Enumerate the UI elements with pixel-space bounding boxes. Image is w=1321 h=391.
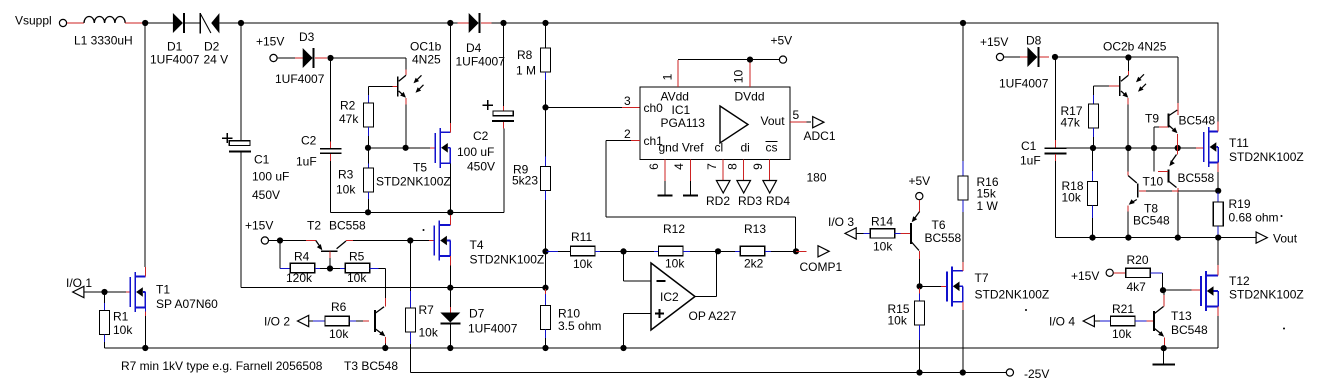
- svg-text:+15V: +15V: [980, 35, 1008, 49]
- svg-text:RD2: RD2: [706, 194, 730, 208]
- svg-text:6: 6: [647, 163, 661, 170]
- wire ground rail: [105, 347, 1219, 349]
- terminal +5V (IC1): [779, 56, 786, 63]
- wire rail to right corner: [963, 22, 1219, 24]
- svg-text:R11: R11: [571, 230, 592, 244]
- wire sense line down to Vout row: [1177, 192, 1179, 237]
- svg-text:+5V: +5V: [909, 174, 931, 188]
- svg-text:R14: R14: [871, 215, 893, 229]
- svg-text:100 uF: 100 uF: [252, 170, 289, 184]
- svg-text:9: 9: [751, 163, 765, 170]
- transistor T11 STD2NK100Z mosfet: [1203, 132, 1205, 162]
- svg-text:R21: R21: [1112, 302, 1134, 316]
- node R2/R3 junction: [365, 145, 371, 151]
- wire red C1 top lead: [240, 137, 242, 141]
- svg-text:AVdd: AVdd: [661, 90, 689, 104]
- node T3 emitter rail junction: [382, 345, 388, 351]
- svg-text:24 V: 24 V: [204, 53, 229, 67]
- wire T10 collector to R19 node: [1178, 190, 1218, 192]
- svg-text:120k: 120k: [286, 271, 313, 285]
- wire +15V to D3: [277, 57, 295, 59]
- wire T12 drain: [1217, 238, 1219, 265]
- resistor R16 15k 1W: [962, 23, 964, 161]
- svg-text:ADC1: ADC1: [804, 129, 836, 143]
- wire row red to T11 gate: [1178, 147, 1196, 149]
- wire T12 source: [1217, 307, 1219, 317]
- wire T9 base: [1159, 126, 1168, 128]
- resistor R5 10k: [330, 268, 340, 270]
- node R19 bottom on Vout row: [1215, 235, 1221, 241]
- wire input node down to T1 drain: [144, 23, 146, 267]
- terminal Vsuppl: [59, 19, 66, 26]
- wire red OC2b emitter stub: [1127, 98, 1129, 104]
- wire T11 source: [1217, 163, 1219, 172]
- node T4 gate / R7 junction: [407, 237, 413, 243]
- svg-text:0.68 ohm: 0.68 ohm: [1229, 211, 1279, 225]
- wire L1 to node: [125, 22, 145, 24]
- node T13 emitter ground junction: [1161, 345, 1167, 351]
- wire red D3 out: [315, 57, 327, 59]
- terminal +15V (D8): [996, 53, 1003, 60]
- svg-text:1: 1: [661, 73, 675, 80]
- wire T2 collector to T4 gate: [346, 240, 353, 242]
- svg-text:R7: R7: [419, 303, 435, 317]
- terminal +15V (T2): [261, 237, 268, 244]
- node D8 junction: [1052, 54, 1058, 60]
- wire T2 base down: [329, 252, 331, 259]
- terminal +15V (D3): [270, 54, 277, 61]
- node OC2b emitter row junction: [1125, 145, 1131, 151]
- wire D8 node to OC2b: [1055, 56, 1128, 58]
- svg-text:RD3: RD3: [738, 194, 762, 208]
- node COMP1 junction: [793, 248, 799, 254]
- transistor T12 STD2NK100Z mosfet: [1200, 276, 1202, 306]
- resistor R17 47k: [1089, 104, 1099, 128]
- wire T13 emitter: [1164, 337, 1166, 345]
- wire IC2 inverting input: [623, 251, 625, 281]
- svg-text:1UF4007: 1UF4007: [999, 77, 1049, 91]
- capacitor C2 100uF 450V electrolytic: [503, 23, 505, 106]
- svg-text:I/O 4: I/O 4: [1049, 315, 1075, 329]
- transistor T3 BC548: [374, 310, 376, 332]
- svg-text:1UF4007: 1UF4007: [150, 53, 200, 67]
- svg-text:BC548: BC548: [1179, 114, 1216, 128]
- transistor T2 BC558: [316, 241, 322, 249]
- svg-text:R8: R8: [517, 48, 533, 62]
- wire T7 source to -25V rail: [962, 302, 964, 310]
- svg-text:T11: T11: [1229, 136, 1249, 150]
- resistor R7 10k: [409, 241, 411, 292]
- wire T5 drain red: [449, 123, 451, 132]
- wire bus to row288: [545, 251, 547, 287]
- node OC2b collector: [1125, 54, 1131, 60]
- wire OC2b base: [1109, 85, 1119, 87]
- svg-text:OP A227: OP A227: [689, 309, 737, 323]
- svg-text:R6: R6: [331, 300, 347, 314]
- wire Vsuppl to L1: [67, 22, 84, 24]
- node D7 rail junction: [447, 345, 453, 351]
- wire OC1b base: [393, 85, 398, 87]
- svg-text:R5: R5: [349, 250, 365, 264]
- svg-text:STD2NK100Z: STD2NK100Z: [376, 175, 451, 189]
- wire -25V rail: [920, 372, 963, 374]
- op-to coupler OC1b 4N25 phototransistor: [399, 75, 406, 81]
- wire T10 emitter red: [1177, 148, 1179, 155]
- svg-text:DVdd: DVdd: [735, 90, 765, 104]
- svg-text:10k: 10k: [873, 240, 893, 254]
- inductor L1 3330uH: [84, 16, 125, 23]
- resistor R18 10k: [1092, 148, 1094, 171]
- svg-text:BC558: BC558: [329, 219, 366, 233]
- wire D4 to C2 node: [492, 22, 504, 24]
- resistor R10 3.5 ohm: [545, 289, 547, 294]
- svg-text:T13: T13: [1171, 309, 1192, 323]
- wire row y148 cap to R17: [1066, 147, 1093, 149]
- svg-text:R20: R20: [1127, 253, 1149, 267]
- svg-text:R1: R1: [113, 310, 129, 324]
- svg-text:STD2NK100Z: STD2NK100Z: [1229, 150, 1304, 164]
- node R17/R18 junction: [1090, 145, 1096, 151]
- op-amp IC1 PGA113 body: [640, 87, 790, 160]
- node +5V junction: [747, 57, 753, 63]
- wire T10 base red: [1158, 170, 1168, 172]
- wire C1 bottom down to row: [240, 153, 242, 288]
- node R10 top / row288: [542, 285, 548, 291]
- wire C1 branch down: [240, 23, 242, 137]
- wire top rail segment to D4: [241, 22, 458, 24]
- svg-text:1uF: 1uF: [296, 155, 317, 169]
- resistor R12 10k: [624, 250, 655, 252]
- node R12/R13 junction: [715, 248, 721, 254]
- wire T9 collector red: [1177, 109, 1179, 115]
- svg-text:T3 BC548: T3 BC548: [344, 359, 398, 373]
- wire ch1 route: [606, 139, 631, 141]
- svg-text:BC558: BC558: [925, 231, 962, 245]
- wire rail to R16 node: [546, 22, 964, 24]
- node T12 gate junction: [1160, 287, 1166, 293]
- svg-text:T9: T9: [1145, 112, 1159, 126]
- wire red into D4: [458, 22, 470, 24]
- svg-text:D1: D1: [167, 40, 183, 54]
- diode D1 1UF4007: [173, 13, 183, 33]
- wire D3 node to OC1b collector corner: [331, 57, 407, 59]
- diode D7 1UF4007: [449, 288, 451, 307]
- wire to T2 emitter: [280, 240, 306, 242]
- wire T4 drain: [449, 212, 451, 215]
- svg-text:10k: 10k: [347, 271, 367, 285]
- resistor R8 1M: [545, 23, 547, 48]
- output arrow COMP1: [818, 246, 829, 257]
- node R11/R12 junction: [620, 248, 626, 254]
- svg-text:100 uF: 100 uF: [457, 145, 494, 159]
- svg-text:R4: R4: [294, 250, 310, 264]
- transistor T10 BC558: [1168, 170, 1170, 183]
- node R19 top junction: [1215, 188, 1221, 194]
- terminal -25V: [1006, 369, 1013, 376]
- svg-text:R3: R3: [338, 168, 354, 182]
- svg-text:COMP1: COMP1: [800, 260, 843, 274]
- svg-text:T5: T5: [413, 161, 427, 175]
- svg-text:10k: 10k: [336, 183, 356, 197]
- svg-text:STD2NK100Z: STD2NK100Z: [975, 288, 1050, 302]
- wire red OC1b emitter stub: [405, 98, 407, 104]
- svg-text:3.5 ohm: 3.5 ohm: [558, 319, 601, 333]
- wire T5 drain up to rail: [449, 23, 451, 123]
- capacitor C1 1uF (right): [1055, 57, 1057, 140]
- svg-text:BC548: BC548: [1171, 323, 1208, 337]
- svg-text:450V: 450V: [252, 188, 280, 202]
- node T9/T10 emitter junction: [1175, 145, 1181, 151]
- svg-text:10k: 10k: [113, 323, 133, 337]
- wire T3 emitter: [385, 337, 387, 344]
- svg-text:D2: D2: [204, 40, 220, 54]
- svg-text:450V: 450V: [467, 160, 495, 174]
- wire Vout row: [1056, 237, 1093, 239]
- svg-text:4N25: 4N25: [412, 53, 441, 67]
- wire T9 emitter red to node: [1177, 134, 1179, 148]
- wire red out of D4: [481, 22, 492, 24]
- transistor T13 BC548: [1153, 311, 1155, 331]
- node R3 bottom: [365, 209, 371, 215]
- wire T1 source: [144, 308, 146, 312]
- resistor R6 10k: [325, 316, 349, 325]
- wire rail to -25V terminal: [963, 372, 1006, 374]
- svg-text:47k: 47k: [1061, 116, 1081, 130]
- wire base corner down to R2: [368, 86, 370, 95]
- svg-text:+15V: +15V: [256, 35, 284, 49]
- svg-text:10: 10: [732, 70, 746, 84]
- svg-text:C2: C2: [473, 129, 489, 143]
- svg-text:cs: cs: [766, 141, 778, 155]
- wire +15V to R20: [1113, 272, 1125, 274]
- svg-text:180: 180: [807, 171, 827, 185]
- wire R2 bottom: [368, 127, 370, 136]
- svg-text:T7: T7: [975, 271, 989, 285]
- svg-text:+5V: +5V: [771, 34, 793, 48]
- wire T1 drain red: [144, 267, 146, 277]
- wire D1 to D2: [185, 22, 200, 24]
- wire I/O4 to R21: [1094, 320, 1099, 322]
- transistor T4 STD2NK100Z mosfet: [433, 226, 435, 256]
- wire T6 collector down: [919, 251, 921, 259]
- diode D4 1UF4007: [469, 13, 479, 33]
- node R18 bottom: [1089, 235, 1095, 241]
- node R11 input: [542, 248, 548, 254]
- svg-text:4k7: 4k7: [1127, 280, 1147, 294]
- resistor R14 10k: [870, 229, 894, 238]
- node input junction: [142, 20, 148, 26]
- svg-text:R13: R13: [744, 222, 766, 236]
- resistor R3 10k: [368, 148, 370, 164]
- resistor R15 10k: [919, 288, 921, 294]
- wire OC1b collector drop: [405, 58, 407, 69]
- svg-text:OC2b 4N25: OC2b 4N25: [1103, 40, 1167, 54]
- wire R20 corner down: [1161, 273, 1163, 290]
- svg-text:STD2NK100Z: STD2NK100Z: [470, 253, 545, 267]
- capacitor C1 100uF 450V electrolytic: [222, 137, 232, 139]
- pin 9 cs arrow RD4: [769, 160, 771, 181]
- svg-text:3: 3: [624, 94, 631, 108]
- transistor T9 BC548: [1168, 114, 1170, 128]
- svg-text:+15V: +15V: [245, 219, 273, 233]
- wire OC2b emitter down to row: [1127, 105, 1129, 148]
- svg-text:1uF: 1uF: [1020, 154, 1041, 168]
- svg-text:R7 min 1kV type e.g. Farnell: R7 min 1kV type e.g. Farnell 2056508: [121, 359, 323, 373]
- svg-text:IC2: IC2: [660, 290, 679, 304]
- svg-text:R12: R12: [663, 222, 685, 236]
- resistor R11 10k: [547, 250, 559, 252]
- svg-text:RD4: RD4: [766, 194, 790, 208]
- wire T10 collector red: [1177, 188, 1179, 192]
- ground symbol T13: [1163, 348, 1165, 364]
- wire T7 drain red: [962, 262, 964, 271]
- optocoupler OC2b 4N25 phototransistor: [1127, 58, 1129, 71]
- svg-text:47k: 47k: [339, 112, 359, 126]
- svg-text:BC558: BC558: [1178, 171, 1215, 185]
- node D3 junction: [327, 55, 333, 61]
- svg-text:Vsuppl: Vsuppl: [15, 14, 52, 28]
- diode D2 24V zener: [199, 13, 201, 33]
- node T7 source on -25V rail: [960, 369, 966, 375]
- wire rail to R8 node: [504, 22, 546, 24]
- wire +5V supply to pins: [678, 59, 750, 61]
- node base tie row junction: [1151, 145, 1157, 151]
- wire to T9 collector corner: [1128, 56, 1178, 58]
- transistor T1 SPA07N60 mosfet: [129, 277, 131, 307]
- svg-text:10k: 10k: [665, 257, 685, 271]
- wire R7 bottom to -25V rail: [410, 344, 412, 373]
- svg-text:2: 2: [624, 127, 631, 141]
- wire C2-100uF bottom riser: [503, 128, 505, 212]
- svg-text:Vout: Vout: [761, 114, 786, 128]
- node IC2 + input on rail: [620, 345, 626, 351]
- node C2 100uF top: [500, 20, 506, 26]
- wire +15V to D8: [1004, 56, 1020, 58]
- svg-text:T6: T6: [932, 218, 946, 232]
- svg-text:T4: T4: [470, 238, 484, 252]
- resistor R2 47k: [364, 103, 374, 127]
- wire node to D1: [145, 22, 173, 24]
- wire I/O1 to T1 gate: [84, 291, 105, 293]
- svg-text:8: 8: [726, 163, 740, 170]
- wire I/O2 to R6: [309, 320, 313, 322]
- node T4 source / D7 / row288: [447, 285, 453, 291]
- diode D3 1UF4007: [303, 48, 313, 68]
- wire T5 source down: [449, 163, 451, 212]
- svg-text:10k: 10k: [573, 257, 593, 271]
- node R8 top: [542, 20, 548, 26]
- wire OC1b emitter down to row: [405, 105, 407, 148]
- svg-text:10k: 10k: [329, 327, 349, 341]
- svg-text:gnd Vref: gnd Vref: [659, 141, 705, 155]
- svg-text:D3: D3: [299, 30, 315, 44]
- svg-text:10k: 10k: [1062, 191, 1082, 205]
- wire base tie vertical: [1153, 127, 1155, 171]
- wire T8 emitter down: [1127, 206, 1129, 212]
- node R4/R5 junction: [327, 265, 333, 271]
- output arrow Vout: [1256, 232, 1267, 243]
- resistor R13 2k2: [718, 250, 735, 252]
- wire red D8 out: [1040, 56, 1049, 58]
- svg-text:I/O 3: I/O 3: [828, 215, 854, 229]
- node T6/T7/R15 junction: [917, 283, 923, 289]
- op-amp IC2 OPA227: [651, 263, 695, 330]
- svg-text:T1: T1: [156, 283, 170, 297]
- wire +15V to junction: [269, 240, 280, 242]
- terminal +15V (R20): [1106, 269, 1113, 276]
- svg-text:-25V: -25V: [1024, 367, 1049, 381]
- node T1 source on rail: [142, 345, 148, 351]
- svg-text:IC1: IC1: [672, 103, 691, 117]
- svg-text:R2: R2: [340, 99, 356, 113]
- svg-text:7: 7: [705, 163, 719, 170]
- svg-text:T12: T12: [1229, 274, 1250, 288]
- wire T9 collector drop: [1177, 57, 1179, 103]
- resistor R20 4k7: [1126, 268, 1150, 277]
- wire row to T9/T10 emitters: [1154, 147, 1178, 149]
- svg-text:4: 4: [672, 163, 686, 170]
- resistor R19 0.68 ohm: [1217, 193, 1219, 203]
- transistor T7 STD2NK100Z mosfet: [946, 271, 948, 301]
- node T5 drain rail junction: [447, 20, 453, 26]
- svg-text:I/O 2: I/O 2: [264, 315, 290, 329]
- svg-text:1UF4007: 1UF4007: [468, 322, 518, 336]
- wire IC2 non-inverting input: [624, 313, 652, 315]
- wire to T12 gate: [1163, 289, 1191, 291]
- svg-text:10k: 10k: [419, 326, 439, 340]
- svg-text:10k: 10k: [888, 314, 908, 328]
- svg-text:D8: D8: [1026, 34, 1042, 48]
- wire row y148 R17 to base tie: [1093, 147, 1154, 149]
- pin 10 DVdd: [749, 60, 751, 87]
- svg-text:PGA113: PGA113: [661, 116, 706, 130]
- wire R5 to T3 collector: [385, 269, 387, 299]
- svg-text:OC1b: OC1b: [410, 40, 442, 54]
- node top rail / C1 branch: [238, 20, 244, 26]
- svg-text:C2: C2: [301, 134, 317, 148]
- svg-text:1 W: 1 W: [977, 199, 999, 213]
- wire to COMP1 arrow: [796, 250, 807, 252]
- svg-text:5: 5: [793, 108, 800, 122]
- node R15 on -25V rail: [916, 369, 922, 375]
- svg-text:C1: C1: [1021, 139, 1037, 153]
- wire base corner down to R17: [1093, 86, 1095, 95]
- svg-text:2k2: 2k2: [744, 257, 764, 271]
- node +15V junction: [277, 237, 283, 243]
- resistor R21 10k: [1111, 316, 1135, 325]
- svg-text:T2: T2: [307, 219, 321, 233]
- wire T4 source: [449, 256, 451, 266]
- wire ch0 to IC1 pin3: [546, 106, 623, 108]
- svg-text:STD2NK100Z: STD2NK100Z: [1229, 288, 1304, 302]
- resistor R9 5k23: [545, 107, 547, 156]
- pin 4 Vref ground: [689, 160, 691, 182]
- svg-text:T10: T10: [1143, 175, 1164, 189]
- wire to T7 gate: [920, 285, 941, 287]
- wire D2 to rail node: [219, 22, 241, 24]
- transistor T8 BC548 (mirrored): [1127, 148, 1129, 172]
- node T8 emitter on Vout row: [1125, 235, 1131, 241]
- svg-text:ch0: ch0: [644, 101, 664, 115]
- wire I/O3 to R14: [856, 232, 863, 234]
- wire row y288 C1 to D7 node: [241, 287, 451, 289]
- node ch0 / R8-R9 junction: [542, 104, 548, 110]
- svg-text:1 M: 1 M: [516, 64, 536, 78]
- svg-text:R19: R19: [1229, 197, 1251, 211]
- pin 6 gnd ground: [664, 160, 666, 182]
- svg-text:5k23: 5k23: [512, 174, 538, 188]
- svg-text:10k: 10k: [1112, 327, 1132, 341]
